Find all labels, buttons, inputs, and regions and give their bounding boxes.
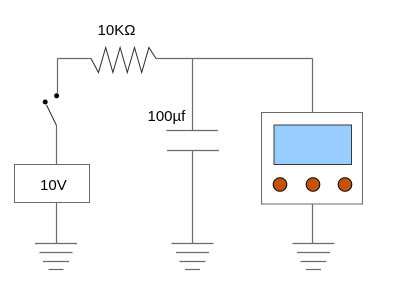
wire top-left horizontal	[58, 58, 92, 60]
svg-text:100µf: 100µf	[148, 108, 187, 125]
battery V1 box	[15, 165, 90, 203]
wire switch to battery	[56, 126, 58, 166]
meter screen	[274, 125, 352, 165]
ground right	[293, 244, 335, 270]
switch contact dot right	[54, 93, 59, 98]
wire junction to capacitor	[192, 59, 194, 131]
wire down to meter	[312, 59, 314, 113]
meter knob 1	[273, 178, 287, 192]
wire capacitor to ground	[192, 151, 194, 244]
switch lever SW1	[47, 105, 57, 126]
meter knob 2	[306, 178, 320, 192]
switch contact dot left	[43, 100, 48, 105]
wire battery to ground	[56, 203, 58, 244]
wire meter to ground	[312, 204, 314, 244]
meter knob 3	[338, 178, 352, 192]
ground left	[35, 244, 77, 270]
resistor R1	[91, 48, 156, 73]
svg-text:10KΩ: 10KΩ	[98, 22, 136, 39]
svg-text:10V: 10V	[40, 177, 67, 194]
wire resistor to device branch	[156, 58, 313, 60]
wire down to switch	[57, 59, 59, 94]
ground center	[172, 244, 214, 270]
meter U1 box	[262, 113, 363, 205]
capacitor C1	[167, 131, 220, 151]
